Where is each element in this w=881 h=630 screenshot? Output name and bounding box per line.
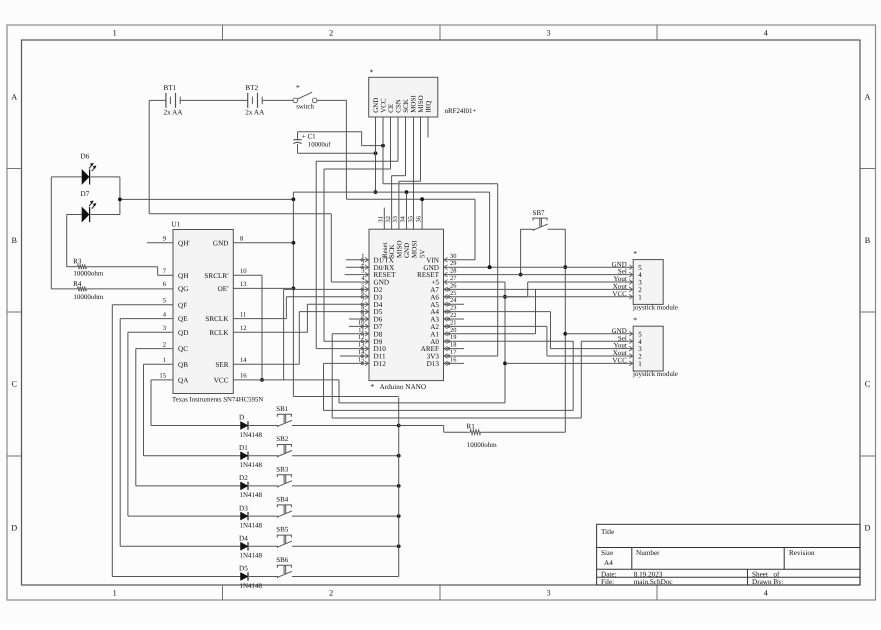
svg-text:A4: A4 [604,559,613,567]
pushbutton SB6 [276,556,292,578]
diode D1 1N4148 [239,444,263,469]
node 5V tap junction [420,197,424,201]
svg-text:4: 4 [764,589,768,598]
svg-text:Texas Instruments SN74HC595N: Texas Instruments SN74HC595N [172,397,263,404]
svg-text:QH: QH [178,272,188,280]
svg-text:5V: 5V [419,249,427,258]
battery BT1 [164,84,184,117]
wire U1 output to row 3 [136,349,241,486]
wire battery minus [149,100,369,282]
wire D6 loop to R4 [51,177,77,289]
svg-text:1: 1 [113,29,117,38]
svg-text:SB2: SB2 [276,435,289,443]
wire U1 OE pin [233,287,293,289]
wire U1 SER to D5 [233,312,369,365]
wire A6 row to Yout1 [444,296,528,298]
svg-text:QG: QG [178,285,188,293]
wire A4 row to Yout2 [444,312,551,349]
svg-text:2x AA: 2x AA [245,109,265,117]
svg-text:20: 20 [450,327,456,334]
diode D3 1N4148 [239,504,263,529]
svg-text:C: C [865,380,871,389]
wire D8 to Sel2 loop [332,334,581,418]
wire D7 cathode [91,214,120,216]
svg-text:A: A [865,93,871,102]
wire U1 RCLK to D4 [233,304,369,332]
node common row 5 [397,544,401,548]
node SRCLR-VCC junction [260,378,264,382]
wire R1 to GND line [481,229,566,432]
svg-text:28: 28 [450,268,456,275]
node GND rail to pin29 [488,265,492,269]
wire D0/RX stub [346,266,369,268]
svg-text:R3: R3 [73,257,82,265]
svg-text:1: 1 [638,293,642,301]
svg-text:B: B [11,236,17,245]
svg-text:MOSI: MOSI [411,240,419,258]
svg-text:27: 27 [450,275,457,282]
node R1 vertical at GND2 [563,332,567,336]
wire button common column [398,398,400,577]
wire A2 row to Xout2 [444,326,547,356]
wire nRF CSN to D10 [316,117,398,349]
svg-text:23: 23 [450,305,456,312]
svg-text:SB6: SB6 [276,556,289,564]
module joystick 1 [612,249,678,312]
node common row 3 [397,484,401,488]
wire SB6 to common [292,576,399,578]
wire D6 anode [51,176,82,178]
module joystick 2 [612,316,678,379]
wire U1 output to row 4 [128,332,241,516]
svg-text:D3: D3 [239,504,248,512]
svg-text:SB7: SB7 [533,209,546,217]
svg-text:Drawn By:: Drawn By: [752,578,784,586]
svg-text:File:: File: [601,578,614,586]
svg-text:*: * [371,382,375,391]
svg-text:1N4148: 1N4148 [240,491,263,499]
svg-text:BT1: BT1 [164,84,177,92]
wire U1 SRCLR to VCC [233,275,262,380]
svg-text:22: 22 [450,312,456,319]
diode D2 1N4148 [239,474,263,499]
svg-text:SB3: SB3 [276,465,289,473]
svg-text:A: A [11,93,17,102]
wire D7 loop to R3 [67,215,78,267]
wire nRF SCK to pin32 [392,117,406,229]
svg-text:36: 36 [415,216,422,222]
svg-text:16: 16 [450,356,456,363]
diode D5 1N4148 [239,565,263,590]
svg-text:QC: QC [178,345,188,353]
svg-text:R4: R4 [73,280,82,288]
Arduino top pin numbers [378,215,423,222]
svg-text:+ C1: + C1 [302,132,316,140]
wire R4 to QG [87,288,174,290]
svg-text:10000ohm: 10000ohm [73,293,104,301]
wire U1 output to row 5 [120,319,240,547]
svg-text:10000uf: 10000uf [308,142,331,149]
wire LED cathode rail [120,192,294,199]
svg-text:31: 31 [378,216,385,222]
U1 left pin numbers [159,236,166,380]
svg-text:IRQ: IRQ [425,101,433,113]
wire diode to button SB5 [249,545,278,547]
MCU module Arduino NANO [369,229,444,391]
wire GND rail to button common [293,199,398,396]
wire +5 bus [339,282,505,403]
svg-text:nRF24l01+: nRF24l01+ [445,107,477,115]
Arduino left pin arrows [361,257,368,365]
node C1-VCC junction [381,144,385,148]
svg-text:*: * [370,68,374,77]
wire U1 SRCLK to D3 [233,297,369,319]
resistor R3 [73,257,104,277]
wire Yout1 row [528,282,634,297]
wire U1 GND pin [233,242,293,244]
wire D12 to bend loop [324,363,574,410]
svg-text:32: 32 [385,216,392,222]
svg-text:D: D [11,524,17,533]
svg-text:1N4148: 1N4148 [240,552,263,560]
node GND rail at pin34 [405,190,409,194]
Arduino left pin numbers [358,253,365,364]
wire SB3 to common [292,485,399,487]
LED D7 [81,190,97,222]
diode D 1N4148 [239,414,263,439]
wire GND rail horizontal [293,192,489,267]
wire 5V pin36 drop [421,199,423,229]
svg-text:QD: QD [178,329,188,337]
svg-text:19: 19 [450,334,456,341]
wire C1 bottom to GND [298,144,376,153]
svg-text:QB: QB [178,361,188,369]
node common row 4 [397,514,401,518]
svg-text:D2: D2 [239,474,248,482]
node GND row rail junction [488,265,492,269]
wire Sel2 row [581,340,633,342]
wire battery plus to VIN [346,100,475,259]
wire U1 VCC row to +5 bus [233,380,339,403]
wire SB7 left leg [520,229,522,275]
svg-text:4: 4 [764,29,768,38]
svg-text:26: 26 [450,282,456,289]
node VCC bus at VCC2 [503,362,507,366]
svg-text:Title: Title [601,528,614,536]
svg-text:VCC: VCC [612,357,627,365]
wire A0 row to bend [444,341,574,410]
svg-text:24: 24 [450,297,457,304]
svg-text:11: 11 [240,311,246,318]
svg-text:D5: D5 [239,565,248,573]
svg-text:15: 15 [159,373,166,380]
wire SB2 to common [292,455,399,457]
wire VCC1 row [505,296,633,298]
wire RESET stub [345,274,369,276]
wire diode to button SB1 [249,425,278,427]
wire U1 QH' stub [147,242,173,244]
wire nRF MISO to pin33 [399,117,421,229]
svg-text:12: 12 [240,325,247,332]
svg-text:Revision: Revision [789,549,815,557]
svg-text:25: 25 [450,290,456,297]
wire diode to button SB3 [249,485,278,487]
svg-text:R1: R1 [467,423,476,431]
svg-text:2: 2 [329,589,333,598]
pushbutton SB1 [276,405,292,427]
wire Xout2 row [547,355,633,357]
wire D11 stub [340,355,369,357]
Arduino right pin arrows [444,257,450,365]
svg-text:14: 14 [240,357,247,364]
IC U1 SN74HC595N [172,221,264,404]
wire A7 row to Xout1 [444,288,634,290]
wire nRF IRQ stub [427,117,429,138]
svg-text:21: 21 [450,319,456,326]
svg-text:*: * [633,249,637,258]
pushbutton SB5 [276,526,292,548]
svg-text:3: 3 [546,589,550,598]
node U1 OE junction [292,287,296,291]
node U1 GND pin junction [292,241,296,245]
svg-text:SB4: SB4 [276,496,289,504]
svg-text:10000ohm: 10000ohm [73,270,104,278]
capacitor C1 [293,132,331,148]
wire SB1 to common [292,425,399,427]
svg-text:1: 1 [113,589,117,598]
svg-text:29: 29 [450,260,456,267]
wire nRF GND pin [375,117,377,192]
svg-text:2x AA: 2x AA [164,109,184,117]
svg-text:D4: D4 [239,535,248,543]
svg-text:QA: QA [178,377,189,385]
pushbutton SB2 [276,435,292,457]
wire battery series [149,99,346,101]
wire GND2 row [565,333,633,335]
svg-text:VCC: VCC [612,290,627,298]
node common row 2 [397,454,401,458]
wire R3 to QH [87,267,174,276]
svg-text:QF: QF [178,301,187,309]
wire A5 stub [444,303,465,305]
svg-text:1: 1 [638,360,642,368]
svg-text:33: 33 [392,216,399,222]
svg-text:10000ohm: 10000ohm [467,441,498,449]
node C1-GND junction [374,151,378,155]
wire pin31 stub [383,208,385,230]
svg-text:U1: U1 [172,221,181,229]
wire GND pin34 drop [406,192,408,229]
svg-text:C: C [11,380,17,389]
node VCC bus at VCC1 [503,295,507,299]
wire A3 stub [444,318,465,320]
node LED rail junction [292,198,296,202]
svg-text:1N4148: 1N4148 [240,521,263,529]
wire SB7 left [521,228,534,230]
svg-text:D6: D6 [81,153,90,161]
wire diode to button SB4 [249,515,278,517]
svg-text:2: 2 [163,341,166,348]
svg-text:Size: Size [601,549,613,557]
resistor R4 [73,280,104,301]
wire U1 output to row 1 [151,380,241,426]
svg-text:VCC: VCC [214,377,229,385]
svg-text:SB5: SB5 [276,526,289,534]
svg-text:Number: Number [636,549,660,557]
wire VCC distribution to 3V3 [383,184,498,356]
battery BT2 [245,84,265,117]
svg-text:joystick module: joystick module [632,304,678,312]
node common row 1 [397,424,401,428]
wire common to R1 [399,426,470,433]
wire U1 output to row 2 [144,364,241,455]
node LED cathode junction [118,198,122,202]
wire AREF stub [444,348,465,350]
svg-text:main.SchDoc: main.SchDoc [634,578,673,586]
svg-text:17: 17 [450,349,457,356]
svg-text:Arduino NANO: Arduino NANO [380,383,427,391]
svg-text:2: 2 [329,29,333,38]
wire SB4 to common [292,515,399,517]
svg-text:D: D [239,414,244,422]
LED D6 [81,153,97,185]
svg-text:GND: GND [213,239,229,247]
svg-text:RCLK: RCLK [209,329,229,337]
svg-text:3: 3 [546,29,550,38]
wire nRF MOSI to pin35 [413,117,415,229]
wire D7 anode [67,214,82,216]
pushbutton SB3 [276,465,292,487]
title block [597,524,860,585]
wire D6 cathode [91,177,120,215]
diode D4 1N4148 [239,535,263,560]
svg-text:34: 34 [400,215,407,222]
svg-text:D7: D7 [81,190,90,198]
wire C1 top to VCC [298,132,384,146]
svg-text:OE': OE' [218,285,229,293]
U1 right pin numbers [240,236,247,380]
pushbutton SB4 [276,496,292,518]
node RESET row junction [519,273,523,277]
wire A1 row to Xout1 [444,289,536,333]
title block text [601,528,815,586]
node nRF GND rail junction [374,190,378,194]
wire D6 stub [349,318,369,320]
wire D1/TX stub [346,259,369,261]
svg-text:B: B [865,236,871,245]
wire nRF CE to D9 [324,117,391,341]
svg-text:switch: switch [296,104,314,111]
svg-text:*: * [296,83,300,92]
svg-text:16: 16 [240,373,247,380]
resistor R1 [467,423,498,449]
wire U1 VCC to D2 [284,289,369,380]
svg-text:joystick module: joystick module [632,370,678,378]
wire D13 stub [444,362,465,364]
wire diode to button SB2 [249,455,278,457]
wire diode to button SB6 [249,576,278,578]
svg-text:SB1: SB1 [276,405,289,413]
wire SB5 to common [292,545,399,547]
svg-text:1N4148: 1N4148 [240,461,263,469]
svg-text:SRCLR': SRCLR' [204,272,228,280]
wire RESET row to Sel1 [444,274,634,276]
svg-text:1N4148: 1N4148 [240,431,263,439]
svg-text:D12: D12 [374,360,387,368]
switch S1 [293,83,317,110]
svg-text:30: 30 [450,253,456,260]
Arduino right pin numbers [450,253,457,364]
module U2 nRF24l01+ [369,68,477,118]
wire VIN row [444,259,476,261]
svg-text:10: 10 [240,268,247,275]
wire GND row to joystick1 [444,266,634,268]
svg-text:1: 1 [163,357,166,364]
node R1 vertical at GND1 [563,265,567,269]
svg-text:BT2: BT2 [245,84,258,92]
wire SB7 right [548,228,566,230]
svg-text:13: 13 [240,281,247,288]
wire nRF VCC pin [382,117,384,184]
pushbutton SB7 [533,209,548,231]
wire Yout2 row [551,348,634,350]
wire D7 stub [349,325,369,327]
svg-text:18: 18 [450,342,456,349]
svg-text:D13: D13 [427,360,440,368]
wire VCC2 row [505,362,633,364]
svg-text:35: 35 [407,216,414,222]
svg-text:QH': QH' [178,239,190,247]
svg-text:*: * [633,316,637,325]
svg-text:D: D [865,524,871,533]
svg-text:SRCLK: SRCLK [205,315,229,323]
wire U1 output to row 6 [112,305,240,577]
svg-text:SER: SER [215,361,228,369]
svg-text:1N4148: 1N4148 [240,582,263,590]
svg-text:D1: D1 [239,444,248,452]
svg-text:QE: QE [178,315,188,323]
